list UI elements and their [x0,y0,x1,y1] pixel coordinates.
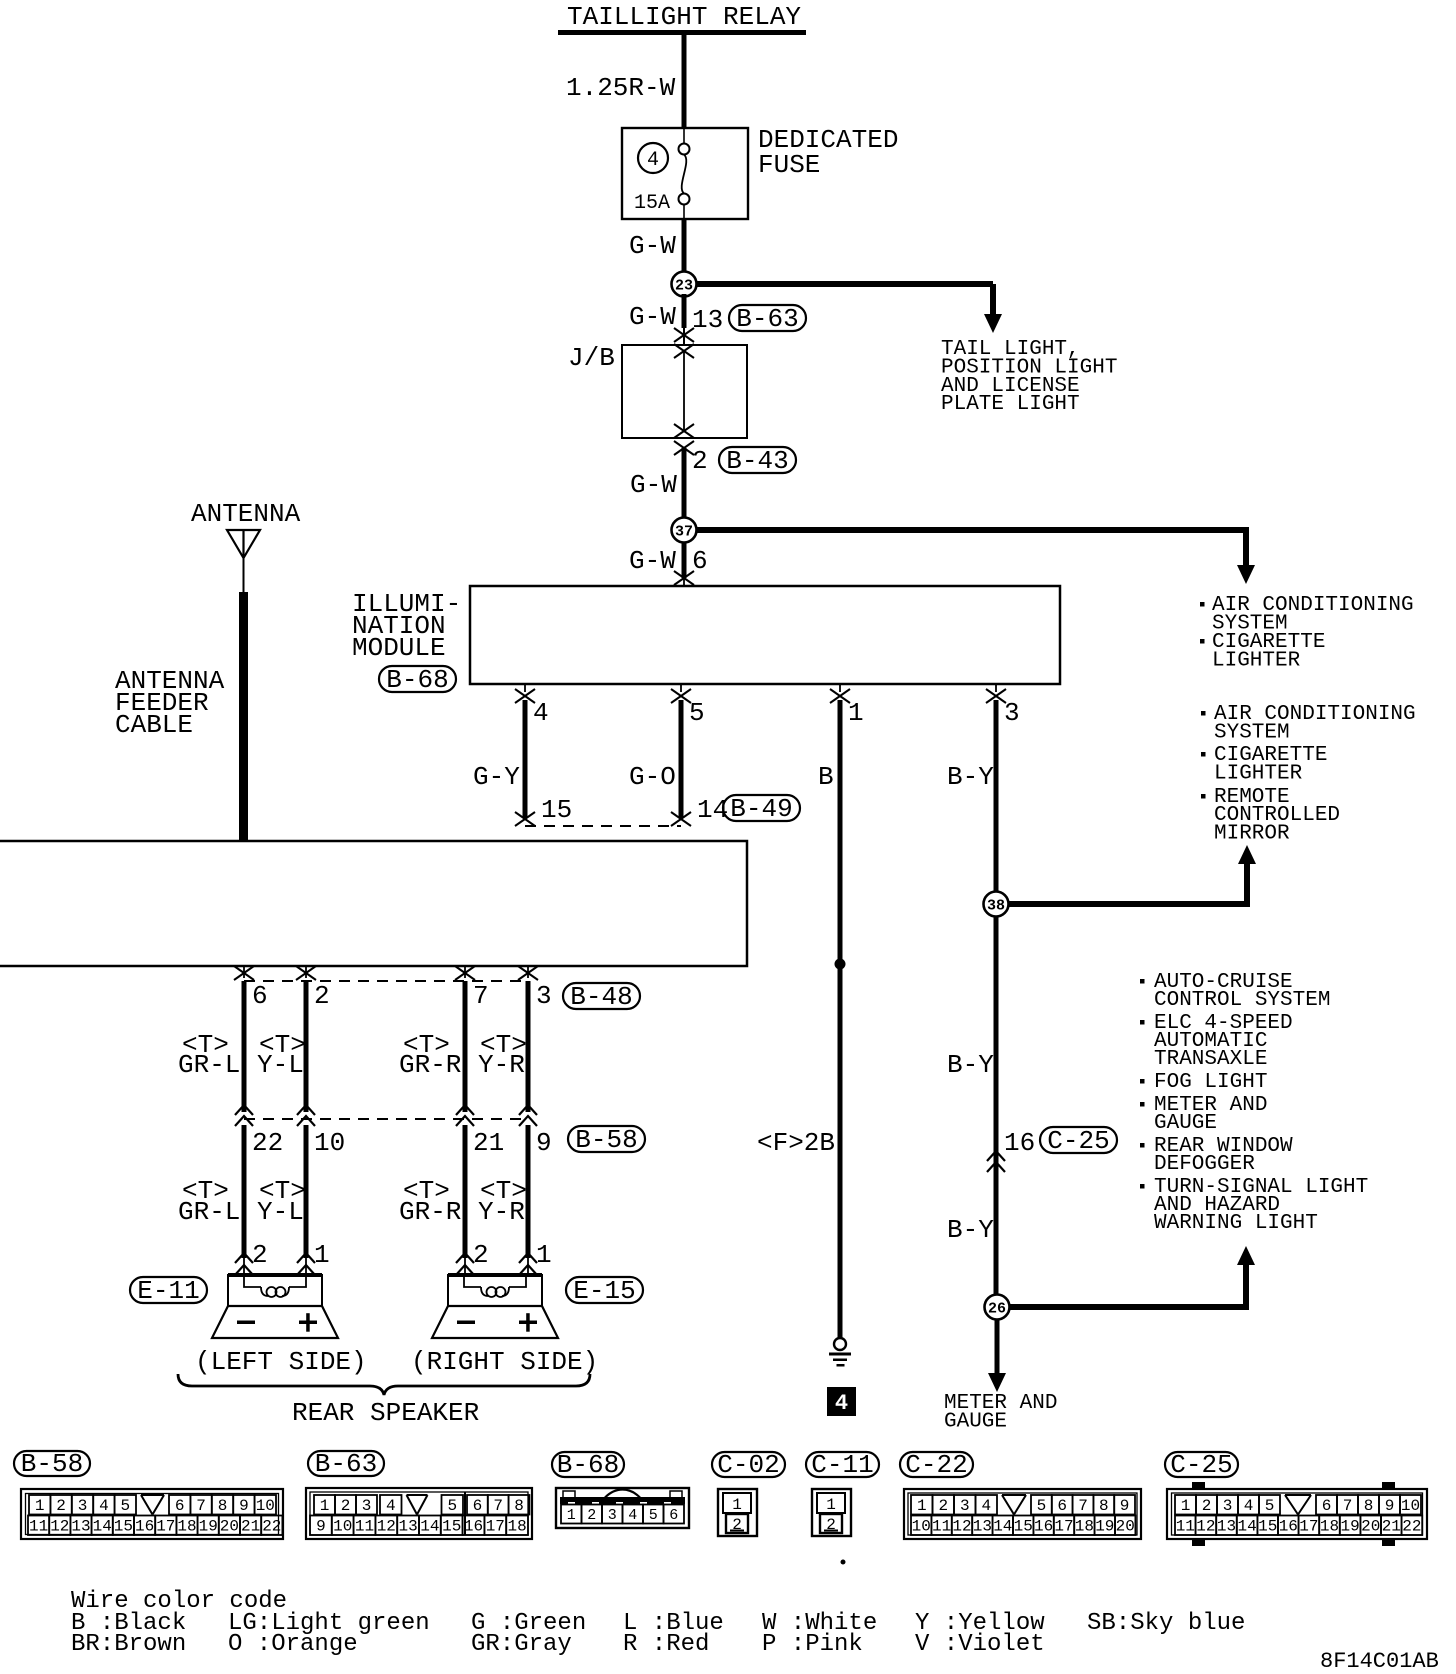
svg-text:21: 21 [473,1128,504,1158]
connector B-58 dashed line [244,1118,528,1120]
svg-text:7: 7 [1078,1497,1088,1515]
radio box [0,841,747,966]
svg-text:B-Y: B-Y [947,762,994,792]
svg-text:17: 17 [1054,1518,1073,1536]
wire: pin 1 B to ground [838,700,843,1338]
svg-text:10: 10 [256,1497,275,1515]
svg-text:26: 26 [988,1301,1006,1318]
svg-text:16: 16 [1004,1128,1035,1158]
svg-text:22: 22 [1402,1518,1421,1536]
svg-text:3: 3 [78,1497,88,1515]
svg-text:4: 4 [386,1497,396,1515]
connector pinout C-11 [806,1452,879,1477]
svg-text:13: 13 [692,305,723,335]
svg-text:5: 5 [1037,1497,1047,1515]
svg-text:20: 20 [220,1518,239,1536]
svg-text:14: 14 [420,1518,439,1536]
svg-text:16: 16 [1279,1518,1298,1536]
svg-text:O :Orange: O :Orange [228,1631,358,1658]
svg-text:GAUGE: GAUGE [1154,1112,1217,1135]
svg-text:4: 4 [981,1497,991,1515]
svg-text:7: 7 [196,1497,206,1515]
svg-text:WARNING LIGHT: WARNING LIGHT [1154,1212,1318,1235]
rear speaker left [228,1273,322,1277]
connector pinout B-63 [308,1451,384,1476]
svg-text:B-48: B-48 [570,982,632,1012]
svg-text:18: 18 [507,1518,526,1536]
branch wire: splice 37 to accessories [684,527,1249,533]
svg-text:13: 13 [973,1518,992,1536]
svg-text:8F14C01AB: 8F14C01AB [1320,1649,1439,1674]
svg-text:5: 5 [447,1497,457,1515]
svg-text:GAUGE: GAUGE [944,1411,1007,1434]
radio pins to connector B-48 [243,966,245,978]
svg-text:B-58: B-58 [21,1449,83,1479]
svg-text:13: 13 [398,1518,417,1536]
svg-text:1.25R-W: 1.25R-W [566,73,676,103]
svg-text:B-68: B-68 [557,1450,619,1480]
connector B-49 [723,795,800,821]
wire through J/B [683,351,685,431]
svg-text:8: 8 [514,1497,524,1515]
svg-text:11: 11 [1176,1518,1195,1536]
connector B-63 [729,305,806,331]
svg-text:1: 1 [536,1240,552,1270]
ground reference 4 [827,1387,856,1416]
wire: splice 23 to J/B, G-W [682,294,687,328]
connector B-49 dashed line [525,825,681,827]
branch wire: splice 23 to tail lights [684,281,993,287]
branch wire: splice 38 to mirror etc [996,901,1250,907]
svg-text:GR-R: GR-R [399,1197,461,1227]
wire: pin 3 B-Y [994,700,999,904]
svg-text:15: 15 [442,1518,461,1536]
svg-text:2: 2 [56,1497,66,1515]
svg-text:1: 1 [1181,1497,1191,1515]
wire: splice 38 to splice 26, B-Y [994,916,999,1307]
svg-text:4: 4 [1244,1497,1254,1515]
module pin 5 crossing [680,684,682,692]
wire: relay to dedicated fuse, 1.25R-W [682,35,687,128]
svg-text:G-Y: G-Y [473,762,520,792]
svg-text:15: 15 [114,1518,133,1536]
connector pinout C-25 [1165,1452,1238,1477]
svg-text:15: 15 [1258,1518,1277,1536]
rear speaker wires upper run [242,981,247,1112]
svg-text:B: B [818,762,834,792]
splice node 38 [984,892,1009,917]
svg-text:19: 19 [199,1518,218,1536]
svg-text:14: 14 [1237,1518,1256,1536]
connector E-15 [566,1277,643,1303]
svg-text:B-58: B-58 [575,1125,637,1155]
svg-text:FOG LIGHT: FOG LIGHT [1154,1071,1267,1094]
svg-text:C-02: C-02 [717,1450,779,1480]
wire: J/B to splice 37, G-W [682,448,687,530]
svg-text:38: 38 [987,898,1005,915]
svg-text:6: 6 [692,546,708,576]
svg-text:8: 8 [1364,1497,1374,1515]
svg-text:Y-L: Y-L [257,1197,304,1227]
splice node 26 [985,1295,1010,1320]
svg-text:E-15: E-15 [573,1276,635,1306]
svg-text:C-25: C-25 [1170,1450,1232,1480]
svg-text:C-25: C-25 [1047,1126,1109,1156]
accessory destination list 2 [1201,711,1206,716]
svg-text:8: 8 [1099,1497,1109,1515]
wire: pin 5 G-O [679,700,684,818]
wire: fuse to splice 23, G-W [682,219,687,284]
stray mark [841,1560,846,1565]
svg-text:15A: 15A [634,192,670,215]
svg-text:14: 14 [93,1518,112,1536]
svg-text:1: 1 [567,1507,576,1524]
svg-text:21: 21 [241,1518,260,1536]
svg-text:B-63: B-63 [315,1449,377,1479]
svg-text:MODULE: MODULE [352,633,446,663]
connector C-25 reference inline [1040,1127,1117,1153]
rear speaker brace [178,1374,590,1395]
svg-text:FUSE: FUSE [758,150,820,180]
rear speaker right [448,1273,542,1277]
svg-text:J/B: J/B [568,343,615,373]
fuse element [683,128,685,144]
svg-text:16: 16 [1034,1518,1053,1536]
svg-text:4: 4 [835,1391,848,1416]
svg-text:C-11: C-11 [811,1450,873,1480]
connector B-58 crossing marks [235,1105,253,1115]
svg-text:G-O: G-O [629,762,676,792]
svg-text:BR:Brown: BR:Brown [71,1631,186,1658]
svg-text:SB:Sky blue: SB:Sky blue [1087,1610,1245,1637]
svg-text:2: 2 [1202,1497,1212,1515]
connector crossing marks at J/B input [674,328,694,342]
connector crossing on B-Y wire [987,1151,1005,1161]
svg-text:12: 12 [377,1518,396,1536]
svg-text:18: 18 [1320,1518,1339,1536]
connector crossing marks at J/B output [674,424,694,438]
svg-text:GR-R: GR-R [399,1050,461,1080]
svg-text:10: 10 [1401,1497,1420,1515]
svg-text:2: 2 [473,1240,489,1270]
branch wire: splice 26 to warning lights [997,1304,1249,1310]
connector B-43 [719,447,796,473]
svg-text:TAILLIGHT RELAY: TAILLIGHT RELAY [567,2,801,32]
svg-text:5: 5 [689,698,705,728]
antenna feeder cable [239,592,248,841]
svg-text:V :Violet: V :Violet [915,1631,1045,1658]
svg-text:LIGHTER: LIGHTER [1214,763,1303,786]
svg-text:Y-L: Y-L [257,1050,304,1080]
svg-text:10: 10 [314,1128,345,1158]
svg-text:CONTROL SYSTEM: CONTROL SYSTEM [1154,989,1330,1012]
svg-text:GR-L: GR-L [178,1197,240,1227]
svg-text:1: 1 [35,1497,45,1515]
splice node 23 [672,272,697,297]
ground symbol [834,1338,846,1350]
svg-text:REAR SPEAKER: REAR SPEAKER [292,1398,479,1428]
svg-text:(LEFT SIDE): (LEFT SIDE) [195,1347,367,1377]
svg-text:TRANSAXLE: TRANSAXLE [1154,1048,1267,1071]
svg-text:18: 18 [1075,1518,1094,1536]
module pin 4 crossing [524,684,526,692]
svg-text:3: 3 [1004,698,1020,728]
svg-text:GR:Gray: GR:Gray [471,1631,572,1658]
svg-text:2: 2 [252,1240,268,1270]
svg-text:2: 2 [938,1497,948,1515]
svg-text:2: 2 [341,1497,351,1515]
svg-text:3: 3 [1223,1497,1233,1515]
svg-text:16: 16 [135,1518,154,1536]
svg-text:B-63: B-63 [736,304,798,334]
svg-text:<F>2B: <F>2B [757,1128,835,1158]
svg-text:9: 9 [1385,1497,1395,1515]
connector E-11 [130,1277,207,1303]
svg-text:3: 3 [960,1497,970,1515]
svg-text:17: 17 [156,1518,175,1536]
svg-text:1: 1 [732,1496,742,1514]
accessory destination list 1 [1200,602,1205,607]
svg-text:9: 9 [536,1128,552,1158]
svg-text:(RIGHT SIDE): (RIGHT SIDE) [411,1347,598,1377]
svg-text:4: 4 [99,1497,109,1515]
svg-text:LIGHTER: LIGHTER [1212,650,1301,673]
svg-text:6: 6 [1057,1497,1067,1515]
svg-text:C-22: C-22 [905,1450,967,1480]
svg-text:7: 7 [493,1497,503,1515]
svg-text:DEFOGGER: DEFOGGER [1154,1153,1255,1176]
svg-text:1: 1 [314,1240,330,1270]
accessory destination list 3 [1140,979,1145,984]
svg-text:Y-R: Y-R [478,1197,525,1227]
svg-text:G-W: G-W [629,231,676,261]
dedicated fuse box F4 15A [622,128,748,219]
taillight relay bus bar [558,30,806,35]
svg-text:MIRROR: MIRROR [1214,823,1290,846]
svg-text:B-Y: B-Y [947,1215,994,1245]
svg-text:9: 9 [239,1497,249,1515]
junction block J/B [622,345,747,438]
connector pinout C-22 [900,1452,973,1477]
antenna symbol [227,530,260,558]
svg-text:20: 20 [1361,1518,1380,1536]
svg-text:1: 1 [848,698,864,728]
svg-text:R :Red: R :Red [623,1631,709,1658]
svg-text:5: 5 [1265,1497,1275,1515]
wire: pin 4 G-Y [523,700,528,818]
svg-text:5: 5 [120,1497,130,1515]
svg-text:18: 18 [177,1518,196,1536]
svg-text:10: 10 [333,1518,352,1536]
svg-text:19: 19 [1340,1518,1359,1536]
svg-text:16: 16 [464,1518,483,1536]
connector B-48 [563,983,640,1009]
svg-text:GR-L: GR-L [178,1050,240,1080]
connector pinout B-68 [552,1452,624,1477]
svg-text:4: 4 [533,698,549,728]
junction dot on wire B [835,959,846,970]
svg-text:PLATE LIGHT: PLATE LIGHT [941,393,1080,416]
svg-text:6: 6 [473,1497,483,1515]
svg-text:1: 1 [917,1497,927,1515]
connector pinout B-58 [14,1451,90,1476]
svg-text:7: 7 [473,981,489,1011]
svg-text:11: 11 [29,1518,48,1536]
svg-text:37: 37 [675,524,693,541]
svg-text:12: 12 [952,1518,971,1536]
svg-text:SYSTEM: SYSTEM [1214,722,1290,745]
svg-text:13: 13 [71,1518,90,1536]
svg-text:3: 3 [608,1507,617,1524]
svg-text:15: 15 [1014,1518,1033,1536]
svg-text:6: 6 [175,1497,185,1515]
connector pinout C-02 [712,1452,785,1477]
svg-text:B-Y: B-Y [947,1050,994,1080]
svg-text:15: 15 [541,795,572,825]
svg-text:G-W: G-W [629,302,676,332]
svg-text:12: 12 [1196,1518,1215,1536]
svg-text:B-68: B-68 [386,665,448,695]
splice node 37 [672,518,697,543]
svg-text:11: 11 [932,1518,951,1536]
svg-text:G-W: G-W [629,546,676,576]
svg-text:12: 12 [50,1518,69,1536]
svg-text:13: 13 [1217,1518,1236,1536]
svg-text:9: 9 [1120,1497,1130,1515]
svg-text:P :Pink: P :Pink [762,1631,863,1658]
svg-text:22: 22 [252,1128,283,1158]
svg-text:B-49: B-49 [730,794,792,824]
svg-text:5: 5 [649,1507,658,1524]
svg-text:6: 6 [252,981,268,1011]
svg-text:Y-R: Y-R [478,1050,525,1080]
svg-text:G-W: G-W [630,470,677,500]
svg-text:8: 8 [218,1497,228,1515]
svg-text:1: 1 [826,1496,836,1514]
svg-text:B-43: B-43 [726,446,788,476]
wire: splice 37 to illumination module pin 6, G-W [682,543,687,578]
illumination module box [470,586,1060,684]
svg-text:6: 6 [1322,1497,1332,1515]
svg-text:17: 17 [1299,1518,1318,1536]
svg-text:11: 11 [355,1518,374,1536]
svg-text:2: 2 [587,1507,596,1524]
rear speaker wires lower run [242,1125,247,1258]
svg-text:ANTENNA: ANTENNA [191,499,301,529]
svg-text:17: 17 [486,1518,505,1536]
svg-text:10: 10 [912,1518,931,1536]
svg-text:23: 23 [675,278,693,295]
svg-text:3: 3 [536,981,552,1011]
wire: splice 26 to meter and gauge [995,1319,1000,1374]
svg-text:20: 20 [1116,1518,1135,1536]
svg-text:3: 3 [362,1497,372,1515]
svg-text:2: 2 [692,446,708,476]
connector B-58 inline [568,1126,645,1152]
svg-text:CABLE: CABLE [115,710,193,740]
svg-text:4: 4 [628,1507,637,1524]
svg-text:E-11: E-11 [137,1276,199,1306]
svg-text:1: 1 [320,1497,330,1515]
svg-text:14: 14 [993,1518,1012,1536]
module pin 1 crossing [839,684,841,692]
svg-text:7: 7 [1343,1497,1353,1515]
module pin 3 crossing [995,684,997,692]
svg-text:22: 22 [262,1518,281,1536]
svg-text:19: 19 [1095,1518,1114,1536]
connector B-68 reference [379,666,456,692]
svg-text:4: 4 [647,149,659,172]
svg-text:21: 21 [1382,1518,1401,1536]
svg-text:2: 2 [314,981,330,1011]
svg-text:9: 9 [316,1518,326,1536]
svg-text:6: 6 [669,1507,678,1524]
connector B-48 dashed line [244,980,528,982]
